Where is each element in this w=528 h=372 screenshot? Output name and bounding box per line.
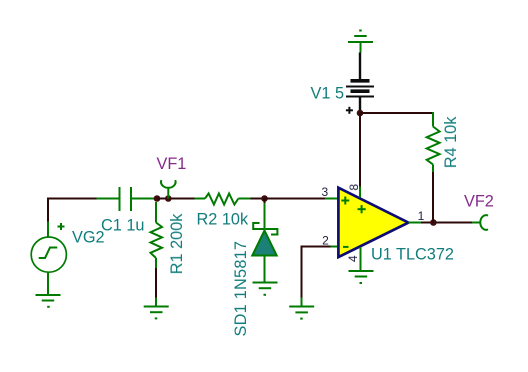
pin 1 label (418, 209, 425, 223)
label R2 10k (197, 211, 249, 229)
capacitor C1 (97, 187, 156, 211)
pin 4 lead (360, 247, 362, 271)
label C1 1u (101, 217, 144, 235)
svg-text:4: 4 (346, 255, 360, 262)
pin 8 lead (359, 187, 361, 198)
svg-text:2: 2 (322, 234, 329, 248)
label VF1 (157, 155, 187, 173)
battery V1 (346, 53, 374, 114)
voltage generator VG2 (31, 222, 66, 296)
ground (below R1) (144, 298, 169, 319)
svg-text:8: 8 (347, 184, 361, 191)
ground (below VG2) (36, 295, 61, 307)
label V1 5 (311, 85, 345, 103)
wire battery node to pin 8 (359, 113, 361, 187)
svg-text:SD1 1N5817: SD1 1N5817 (232, 241, 250, 337)
pin 8 label (347, 184, 361, 191)
label VG2 (72, 229, 105, 247)
label R1 200k (168, 213, 186, 275)
ground (pin 2) (289, 298, 314, 319)
node junction (battery / pin8 / R4) (357, 110, 364, 117)
node junction (C1 / R1) (154, 195, 161, 202)
ground (below SD1) (253, 283, 278, 295)
wire op-amp pin 2 to ground (302, 247, 331, 298)
svg-text:C1 1u: C1 1u (101, 217, 144, 235)
op-amp U1 TLC372 (338, 188, 408, 257)
wire pin 1 to VF2 (421, 222, 472, 224)
voltage probe VF2 (472, 215, 488, 230)
svg-text:1: 1 (418, 209, 425, 223)
pin 3 lead (325, 198, 338, 200)
svg-text:3: 3 (321, 185, 328, 199)
svg-text:R2 10k: R2 10k (197, 211, 249, 229)
pin 2 label (322, 234, 329, 248)
pin 1 lead (408, 222, 421, 224)
ground (above V1, inverted) (348, 31, 373, 53)
svg-text:R4 10k: R4 10k (442, 116, 460, 168)
node junction (output / R4) (430, 219, 437, 226)
pin 3 label (321, 185, 328, 199)
resistor R1 (151, 202, 163, 268)
svg-text:VF1: VF1 (157, 155, 187, 173)
label R4 10k (442, 116, 460, 168)
pin 4 label (346, 255, 360, 262)
pin 2 lead (331, 246, 339, 248)
svg-text:VG2: VG2 (72, 229, 105, 247)
resistor R2 (195, 194, 251, 205)
node junction (probe VF1) (165, 195, 172, 202)
ground (pin 4) (349, 271, 374, 283)
svg-text:VF2: VF2 (464, 193, 494, 211)
wire R1 to ground (155, 268, 157, 298)
label U1 TLC372 (371, 246, 454, 264)
wire VG2 to C1 (48, 199, 97, 222)
svg-text:U1 TLC372: U1 TLC372 (371, 246, 454, 264)
wire node to diode (264, 199, 266, 204)
wire R2 to node (251, 198, 326, 200)
schottky diode SD1 (252, 203, 277, 283)
resistor R4 (427, 112, 440, 172)
wire R4 to output node (432, 172, 434, 223)
label SD1 1N5817 (232, 241, 250, 337)
svg-text:V1 5: V1 5 (311, 85, 345, 103)
label VF2 (464, 193, 494, 211)
node junction (R2 / SD1 / pin3) (261, 195, 268, 202)
svg-text:R1 200k: R1 200k (168, 213, 186, 275)
wire node to op-amp pin 3 (265, 198, 326, 200)
wire battery node to R4 (360, 112, 433, 114)
voltage probe VF1 (161, 180, 176, 198)
wire junction to probe node (157, 198, 195, 200)
